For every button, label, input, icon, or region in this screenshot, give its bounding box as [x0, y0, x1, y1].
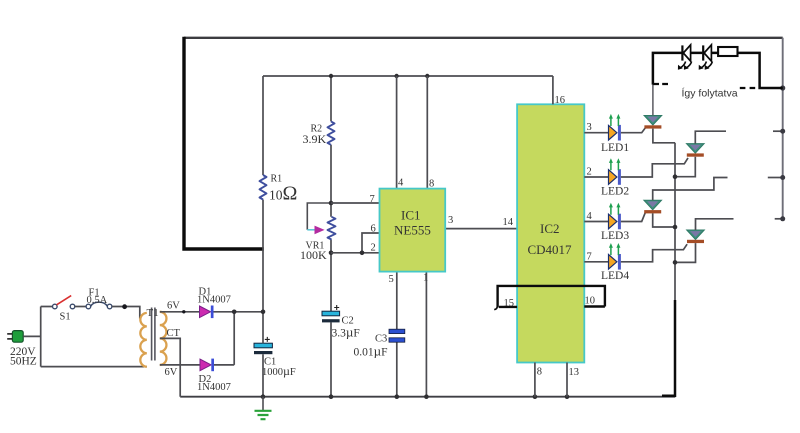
LED LED1 — [609, 114, 621, 141]
wire: IC1 pin6 loop to pin2 — [362, 233, 380, 253]
node: junction dots on VCC rail — [329, 74, 333, 78]
wire: left power feed (black L from raw DC node to top rail) — [184, 37, 264, 249]
ground — [262, 397, 264, 410]
wire: IC2 pin16 to VCC rail — [552, 76, 554, 104]
diode D1 1N4007 — [200, 306, 211, 318]
wire: SCR3 cathode to bus — [653, 213, 675, 227]
wire: SCR3 anode to right rail (step, with drawn gap) — [653, 178, 728, 201]
node: pin2/pin6 junction — [360, 251, 365, 256]
wire: IC1 pin5 / C3 branch — [396, 272, 398, 397]
svg-text:13: 13 — [569, 367, 580, 378]
svg-text:LED3: LED3 — [601, 230, 629, 242]
svg-text:8: 8 — [429, 178, 434, 189]
wire: switch to fuse — [75, 306, 86, 308]
wire: D2 cathode link up to D1 cathode — [214, 312, 234, 365]
wire: SCR2 cathode to bus — [675, 157, 695, 177]
svg-text:CD4017: CD4017 — [528, 242, 573, 257]
node: diode cathode junction dots — [232, 310, 237, 315]
capacitor C1 (electrolytic, + top plate) — [254, 343, 272, 348]
wire: VR1 wiper loop to pin7 node — [307, 203, 331, 230]
node: VR1 bottom junction — [329, 251, 334, 256]
svg-text:8: 8 — [537, 366, 542, 377]
wire: SCR2 anode to right rail (with drawn gap) — [695, 131, 726, 143]
wire: IC2 pin3 to LED1 — [584, 132, 608, 134]
wire: common cathode bus — [674, 143, 676, 302]
wire: fuse to transformer primary — [112, 307, 140, 319]
thyristor Q3 (SCR for LED3) — [644, 200, 662, 213]
svg-text:C1: C1 — [264, 357, 276, 368]
LED LED3 — [609, 203, 621, 230]
svg-text:R1: R1 — [271, 174, 283, 185]
resistor R1 — [260, 175, 267, 200]
svg-text:LED1: LED1 — [601, 142, 629, 154]
svg-text:2: 2 — [587, 167, 592, 178]
svg-text:6V: 6V — [167, 300, 180, 311]
counter IC2 CD4017 box — [517, 104, 584, 362]
svg-text:3: 3 — [448, 215, 453, 226]
transformer T1 core — [152, 308, 155, 361]
lamp LED La2 (series string) — [699, 45, 713, 70]
wire: IC1 pin8 to VCC rail — [426, 76, 428, 189]
LED LED2 — [609, 158, 621, 185]
wire: IC1 pin2 to VR1 bottom — [331, 252, 380, 254]
svg-text:1000µF: 1000µF — [262, 364, 296, 378]
wire: C1 vertical gap closure — [262, 312, 264, 397]
svg-text:14: 14 — [503, 217, 514, 228]
wire: dashed continuation (left) — [653, 83, 668, 85]
wire: LED3 to SCR3 gate — [621, 212, 646, 221]
node: bus junction dots — [673, 174, 678, 179]
wire: cyan wiper stub — [307, 229, 315, 231]
wire: LED2 to SCR2 gate (step) — [621, 158, 688, 177]
svg-text:3.9K: 3.9K — [303, 132, 327, 146]
wire: IC2 pin2 to LED2 — [584, 176, 608, 178]
svg-text:100K: 100K — [300, 248, 327, 262]
capacitor C3 — [389, 329, 405, 333]
svg-text:10: 10 — [585, 296, 596, 307]
fuse F1 — [86, 304, 91, 309]
wire: IC1 pin3 to IC2 pin14 — [445, 228, 517, 230]
svg-text:3.3µF: 3.3µF — [332, 325, 360, 340]
svg-text:CT: CT — [167, 328, 181, 339]
wire: SCR4 cathode to bus — [675, 243, 696, 262]
wire: R2/VR1/C2 branch vertical x=331 — [330, 76, 332, 397]
LED LED4 — [609, 243, 621, 270]
svg-text:T1: T1 — [147, 307, 159, 319]
VR1 wiper arrow — [315, 226, 325, 235]
wire: SCR4 anode to right rail (with drawn gap) — [696, 219, 734, 230]
wire: bottom ground rail — [180, 396, 675, 398]
wire: CT tap to ground rail — [160, 338, 180, 396]
svg-text:0.5A: 0.5A — [87, 295, 108, 306]
node: ground rail junction dots — [261, 394, 266, 399]
wire: IC2 pin7 to LED4 — [584, 261, 608, 263]
svg-text:15: 15 — [504, 298, 515, 309]
svg-text:4: 4 — [398, 178, 404, 189]
wire: SCR1 cathode to bus — [653, 129, 675, 143]
svg-text:1: 1 — [423, 272, 428, 283]
resistor R2 — [328, 121, 335, 144]
transformer T1 secondary winding — [160, 312, 167, 365]
wire: secondary top tap to D1 — [160, 311, 199, 313]
wire: LED1 to SCR1 gate — [621, 128, 646, 133]
wire: IC2 pin4 to LED3 — [584, 221, 608, 223]
node: VR1 top junction — [329, 201, 334, 206]
svg-text:LED4: LED4 — [601, 270, 629, 282]
svg-text:6: 6 — [371, 224, 376, 235]
wire: VCC rail y=76 feeding ICs — [263, 75, 553, 77]
thyristor Q4 (SCR for LED4) — [687, 230, 705, 243]
svg-text:S1: S1 — [60, 312, 71, 323]
svg-text:IC1: IC1 — [401, 208, 421, 223]
svg-text:3: 3 — [587, 122, 592, 133]
svg-text:LED2: LED2 — [601, 186, 629, 198]
svg-text:NE555: NE555 — [394, 223, 431, 238]
switch S1 — [53, 304, 58, 309]
wire: right supply rail — [782, 38, 784, 219]
svg-text:4: 4 — [587, 211, 593, 222]
svg-text:1N4007: 1N4007 — [197, 382, 231, 393]
wire: dashed continuation (right) — [740, 87, 755, 89]
svg-text:2: 2 — [371, 243, 376, 254]
node: right rail dots — [780, 85, 785, 90]
svg-text:7: 7 — [370, 194, 375, 205]
transformer T1 primary winding — [140, 313, 146, 367]
wire: secondary bottom tap to D2 — [160, 364, 200, 366]
potentiometer VR1 (track) — [328, 217, 336, 240]
op-amp/timer IC1 box — [380, 189, 446, 272]
svg-text:50HZ: 50HZ — [10, 356, 37, 368]
svg-text:1N4007: 1N4007 — [197, 295, 231, 306]
thyristor Q1 (SCR for LED1) — [644, 116, 662, 129]
wire: lamp string frame (black) — [653, 53, 783, 88]
wire: IC1 pin1 to ground rail — [425, 272, 427, 397]
svg-text:7: 7 — [587, 251, 592, 262]
thyristor Q2 (SCR for LED2) — [687, 144, 705, 157]
svg-text:0.01µF: 0.01µF — [354, 344, 388, 359]
wire: plug to primary loop — [23, 307, 147, 367]
wire: IC1 pin4 to VCC rail — [396, 76, 398, 189]
wire: IC1 pin7 to VR1 top — [331, 202, 380, 204]
wire: R1 branch vertical x=263 — [262, 76, 264, 312]
wire: IC2 pin13 to ground rail — [566, 363, 568, 397]
wire: SCR1 anode up to lamp string — [652, 85, 654, 116]
mains plug — [12, 331, 23, 343]
wire: pin15-pin10 reset bracket (thick black) — [498, 286, 605, 308]
diode D2 1N4007 — [200, 359, 211, 371]
svg-text:6V: 6V — [165, 367, 178, 378]
node: dot after fuse — [122, 304, 127, 309]
wire: LED4 to SCR4 gate (step) — [621, 244, 687, 262]
resistor R (series string) — [718, 47, 737, 56]
wire: D1 cathode to raw DC node — [214, 311, 264, 313]
svg-text:Így folytatva: Így folytatva — [682, 87, 738, 100]
svg-text:IC2: IC2 — [540, 221, 560, 236]
capacitor C2 (electrolytic, + top plate) — [322, 311, 340, 316]
svg-text:5: 5 — [389, 274, 394, 285]
lamp LED La1 (series string) — [678, 45, 692, 70]
node: dot on 6V tap wire — [182, 310, 185, 313]
wire: top supply rail — [184, 37, 783, 39]
svg-text:16: 16 — [555, 95, 566, 106]
wire: IC2 pin8 to ground rail — [534, 363, 536, 397]
